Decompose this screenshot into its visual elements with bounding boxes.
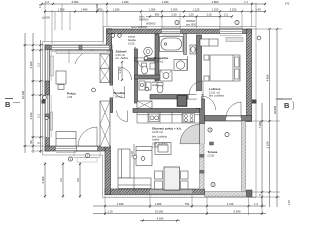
svg-text:tl.150: tl.150	[128, 42, 135, 46]
svg-text:1.10: 1.10	[107, 210, 113, 214]
sofa L-shape	[118, 149, 151, 189]
svg-text:10.160: 10.160	[155, 210, 164, 214]
dimension line bottom inner	[93, 202, 266, 207]
svg-text:(2,25): (2,25)	[208, 154, 215, 158]
svg-text:1.4: 1.4	[254, 202, 258, 206]
svg-text:Obývací pokoj + k.k.: Obývací pokoj + k.k.	[152, 127, 182, 131]
bedroom wardrobe	[200, 39, 218, 46]
door arc: zadveri door	[119, 67, 132, 80]
svg-text:7.080: 7.080	[258, 121, 262, 128]
wall: chodba south	[150, 95, 203, 100]
svg-text:4.0: 4.0	[76, 178, 80, 182]
boiler circle	[144, 47, 153, 56]
wall: top-left exterior	[45, 45, 112, 50]
svg-text:±0,000: ±0,000	[42, 16, 50, 20]
note text above bedroom window	[186, 19, 197, 27]
left window mullion lower	[45, 114, 50, 118]
section cut mark right wall	[252, 100, 257, 104]
radiator under top-left window	[56, 51, 108, 54]
dining table with chairs	[155, 167, 189, 190]
extension lines left	[23, 45, 44, 151]
svg-text:6.060: 6.060	[72, 0, 79, 4]
door arc: bedroom door	[202, 96, 216, 110]
label: obyvaci pokoj	[152, 127, 182, 149]
door gap: bedroom terrace door	[226, 116, 241, 122]
partition line next to washer	[187, 56, 189, 71]
interior dim living room vertical	[130, 144, 134, 191]
marker circle terrace wall	[208, 128, 212, 132]
interior dim zadveri	[118, 61, 123, 81]
svg-text:Chodba: Chodba	[113, 91, 125, 95]
bathtub	[160, 37, 184, 52]
dimension line top second	[44, 8, 266, 13]
svg-text:2.300: 2.300	[29, 61, 33, 68]
dimension line right inner	[258, 103, 263, 207]
svg-text:fasáda: fasáda	[128, 38, 136, 42]
wc toilet	[142, 63, 148, 74]
svg-text:170: 170	[285, 2, 290, 6]
shower box	[160, 70, 172, 81]
door arc: wc door	[138, 61, 144, 67]
dimension line bottom-left b	[59, 162, 64, 198]
svg-text:lam. podlaha: lam. podlaha	[209, 94, 224, 98]
extension lines top	[45, 3, 256, 45]
wall: partition wc/bath east	[155, 34, 159, 81]
marker circle terrace floor	[211, 182, 215, 186]
dimension line top third right	[146, 13, 233, 18]
wall: partition wc west	[135, 49, 138, 103]
door gap: pokoj	[110, 86, 113, 98]
svg-text:1.15: 1.15	[118, 68, 122, 74]
marker circles living south	[133, 155, 145, 160]
wall: hall south exterior	[45, 146, 110, 151]
label: pokoj	[67, 92, 76, 100]
svg-text:1.40: 1.40	[255, 8, 261, 12]
svg-text:2.200: 2.200	[230, 8, 237, 12]
dimension line left outer	[21, 33, 26, 153]
svg-text:80: 80	[29, 140, 33, 143]
marker circle right ext	[257, 36, 261, 40]
door arc: patio door quarter swing	[180, 124, 200, 144]
svg-text:5.540: 5.540	[234, 210, 241, 214]
wall: wc south	[135, 75, 163, 79]
svg-text:3.100: 3.100	[29, 112, 33, 119]
svg-text:otvor 900/600: otvor 900/600	[131, 25, 147, 29]
wall: partition chodba/bedroom stub	[197, 108, 202, 116]
svg-text:zatepl.: zatepl.	[128, 35, 136, 39]
interior dim line pokoj window	[68, 50, 70, 63]
svg-text:1.25: 1.25	[188, 13, 194, 17]
svg-text:B: B	[284, 101, 290, 110]
svg-text:Koupelna: Koupelna	[154, 56, 168, 60]
marker circle top 2	[235, 20, 239, 24]
svg-text:900/600: 900/600	[146, 22, 156, 26]
svg-text:pr.: pr.	[134, 46, 137, 50]
dimension line bottom-left c	[76, 162, 81, 198]
door gap: patio to terrace	[200, 124, 205, 144]
svg-text:2.200: 2.200	[171, 8, 178, 12]
label: terasa	[208, 150, 218, 158]
dimension line bottom-left a	[41, 162, 46, 198]
second sofa	[136, 147, 152, 166]
svg-text:10.100: 10.100	[21, 90, 25, 99]
svg-text:2.2: 2.2	[224, 13, 228, 17]
roof overhang outline	[43, 27, 257, 198]
terrace corner post	[247, 190, 253, 197]
svg-text:1.9: 1.9	[45, 0, 49, 4]
svg-text:1.180: 1.180	[162, 0, 169, 4]
extension lines bottom	[105, 195, 262, 215]
nightstand	[204, 55, 209, 81]
tech room equipment	[139, 81, 151, 90]
door gap: wc	[138, 58, 144, 61]
entrance step outside	[74, 152, 100, 158]
kitchen sink	[149, 114, 159, 122]
svg-text:1.150: 1.150	[212, 8, 219, 12]
wall: living/terrace west lower (glazed)	[200, 144, 205, 189]
window sill protrusions top wall	[161, 27, 243, 29]
dimension line bottom outer	[93, 210, 266, 215]
wall: bedroom south interior	[196, 116, 252, 122]
svg-text:31,05 m2: 31,05 m2	[152, 130, 163, 134]
svg-text:±0,000: ±0,000	[95, 3, 99, 12]
svg-text:4.800: 4.800	[212, 0, 219, 4]
marker circle top 1	[175, 20, 179, 24]
svg-text:900/600: 900/600	[139, 18, 149, 22]
svg-text:1.480: 1.480	[155, 202, 162, 206]
coffee table	[155, 143, 171, 155]
svg-text:ker. dlažba: ker. dlažba	[116, 56, 129, 60]
top window mullion	[79, 45, 82, 50]
vertical extension lines above top-left wall	[55, 4, 70, 30]
window: top-left room	[52, 45, 109, 52]
wardrobe with X upper	[100, 54, 110, 83]
door arc: entrance	[78, 127, 97, 146]
marker circle left wall low	[45, 116, 48, 119]
window: hall south sidelight	[56, 146, 76, 153]
dimension line bottom third	[140, 217, 180, 222]
svg-text:1.125: 1.125	[193, 8, 200, 12]
washing machine	[174, 60, 187, 71]
wall: lower-left exterior vertical	[105, 146, 111, 195]
left window mullion upper	[45, 81, 50, 95]
svg-text:1.480: 1.480	[81, 8, 88, 12]
note text cluster above bathroom	[139, 15, 156, 26]
label: zadveri	[116, 50, 129, 61]
svg-text:4.480: 4.480	[266, 74, 270, 81]
extension lines right	[249, 29, 282, 197]
svg-text:4.740: 4.740	[227, 202, 234, 206]
window: living room south (glazed gray)	[150, 189, 192, 195]
dimension line right outer	[273, 28, 278, 207]
wall: living/terrace west upper	[200, 99, 205, 124]
marker circle tech	[144, 56, 148, 60]
svg-text:4.180: 4.180	[157, 217, 164, 221]
desk in pokoj	[56, 71, 66, 90]
wc sink	[150, 63, 155, 69]
dashed drain line below south wall	[107, 195, 252, 197]
section cut mark left wall	[42, 100, 46, 104]
wall: top step between sections	[107, 29, 112, 51]
window swing arc pokoj	[75, 50, 94, 64]
door arc: pokoj door	[113, 86, 125, 98]
svg-text:Ložnice: Ložnice	[209, 87, 221, 91]
kitchen stove	[183, 114, 195, 123]
section marker B left	[5, 99, 20, 110]
svg-text:1.980: 1.980	[58, 8, 65, 12]
terrace step mark	[210, 142, 214, 145]
wall: kitchen north	[133, 109, 200, 113]
bench at entrance	[56, 132, 76, 147]
wall: partition zadveri east	[110, 50, 113, 86]
svg-text:1.050: 1.050	[149, 8, 156, 12]
svg-text:1.9: 1.9	[38, 4, 42, 8]
section marker B right	[277, 99, 294, 110]
svg-text:4.3: 4.3	[59, 178, 63, 182]
window: left wall lower	[45, 95, 51, 137]
door arc: chodba to living room opening	[117, 111, 128, 122]
chodba cabinet with X	[137, 101, 152, 109]
dimension line left mid	[29, 33, 34, 153]
label: chodba	[113, 91, 125, 99]
marker circle chodba	[145, 87, 149, 91]
wall: right exterior upper	[247, 29, 252, 122]
svg-text:1.180: 1.180	[122, 0, 129, 4]
svg-text:1.180: 1.180	[117, 202, 124, 206]
svg-text:16.830: 16.830	[273, 105, 277, 114]
wall: wc north divider	[135, 58, 160, 61]
svg-text:místn.: místn.	[152, 83, 159, 87]
door gap: bedroom	[197, 91, 202, 108]
door arc: bathroom door	[189, 81, 203, 95]
right dim stub to section mark	[275, 98, 283, 100]
radiator left window upper	[51, 56, 54, 76]
marker circle facade b	[118, 34, 122, 38]
svg-text:5,45 m2: 5,45 m2	[154, 60, 164, 64]
door gap: entrance	[77, 146, 97, 151]
wall: top-right exterior	[107, 29, 252, 34]
svg-text:4.350: 4.350	[41, 176, 45, 183]
svg-text:1.70: 1.70	[287, 200, 291, 206]
bed	[210, 55, 240, 81]
marker circle left window	[43, 96, 47, 100]
label: loznice	[209, 87, 224, 98]
dimension line top outer	[41, 0, 266, 5]
svg-text:950: 950	[155, 13, 160, 17]
svg-text:Terasa: Terasa	[208, 150, 218, 154]
wall: living room south exterior	[105, 189, 205, 195]
svg-text:2,600: 2,600	[152, 145, 159, 149]
svg-text:2.3: 2.3	[37, 63, 41, 67]
wall: left exterior	[45, 45, 50, 151]
wall: partition bedroom west	[197, 35, 202, 91]
wall: partition zadveri east lower	[110, 98, 113, 113]
svg-text:2.20: 2.20	[171, 13, 177, 17]
bathroom sink	[190, 45, 196, 54]
dimension line left inner	[37, 40, 42, 153]
svg-text:1.15: 1.15	[206, 13, 212, 17]
glazed wall mullions	[199, 154, 204, 158]
marker circle pokoj door	[92, 88, 96, 92]
note rows in zadveri upper	[128, 25, 147, 46]
chimney block	[177, 95, 187, 107]
wardrobe with X lower	[100, 101, 110, 147]
door gap: bathroom	[189, 95, 203, 99]
dimension line right mid	[266, 28, 271, 207]
svg-text:750: 750	[185, 202, 190, 206]
marker circle entrance 2	[85, 153, 89, 157]
svg-text:1.180: 1.180	[113, 8, 120, 12]
radiator left window lower	[50, 112, 53, 130]
door arc: bedroom terrace door	[226, 102, 241, 118]
svg-text:par.1500: par.1500	[186, 23, 197, 27]
window: bedroom top	[220, 29, 242, 36]
window: left wall upper	[45, 50, 51, 81]
marker circle facade a	[111, 34, 115, 38]
wall: terrace south (light)	[205, 192, 249, 197]
svg-text:malba: malba	[152, 138, 160, 142]
marker circle entrance 1	[68, 157, 72, 161]
bath side partition	[184, 34, 187, 55]
wall: terrace east (light)	[242, 121, 246, 194]
svg-text:7,06 m2: 7,06 m2	[113, 95, 123, 99]
svg-text:B: B	[5, 100, 11, 109]
svg-text:Pokoj: Pokoj	[67, 92, 76, 96]
svg-text:2,08: 2,08	[67, 95, 73, 99]
label: technicka	[152, 80, 159, 87]
window: bathroom top	[162, 29, 180, 35]
svg-text:Zádveří: Zádveří	[116, 50, 127, 54]
svg-text:3.100: 3.100	[266, 141, 270, 148]
radiator bedroom	[226, 38, 243, 42]
svg-text:1.1: 1.1	[244, 0, 248, 4]
bathroom toilet	[157, 83, 163, 93]
kitchen counter	[137, 113, 200, 124]
marker circle terrace wall b	[225, 132, 229, 136]
svg-text:900/600: 900/600	[186, 19, 196, 23]
svg-text:3.1: 3.1	[37, 114, 41, 118]
label: koupelna	[154, 56, 168, 64]
